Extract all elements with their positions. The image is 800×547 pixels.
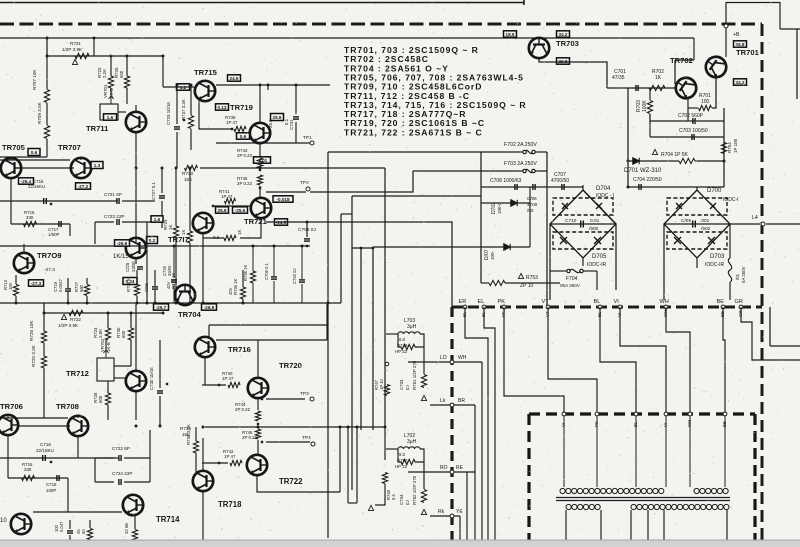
wire	[124, 457, 150, 459]
voltage callout 1.2	[177, 84, 190, 90]
junction	[295, 84, 298, 87]
resistor R751	[421, 375, 426, 388]
svg-text:F702 2A 250V: F702 2A 250V	[504, 142, 537, 148]
wire bridge left leg	[549, 224, 551, 300]
wire bridge top feed	[582, 185, 584, 190]
svg-text:C/05: C/05	[681, 218, 691, 224]
svg-text:F704: F704	[566, 276, 578, 282]
wire	[135, 133, 137, 236]
wire	[203, 237, 224, 239]
svg-text:330: 330	[24, 467, 32, 472]
wire	[384, 427, 386, 460]
wire secondary lead 3	[630, 510, 632, 547]
wire +B rail right	[524, 37, 694, 39]
wire main mid rail	[0, 302, 341, 304]
wire to L4	[730, 223, 760, 225]
resistor R704	[679, 158, 695, 163]
svg-text:C710: C710	[565, 218, 577, 224]
junction	[162, 55, 165, 58]
wire	[7, 436, 9, 478]
wire	[0, 200, 118, 202]
wire	[124, 481, 150, 483]
resistor R725	[124, 76, 129, 88]
wire	[134, 541, 136, 547]
junction	[189, 302, 192, 305]
junction	[327, 302, 330, 305]
voltage callout 25.6	[271, 114, 284, 121]
resistor R739	[234, 126, 246, 131]
node transformer BE	[723, 412, 727, 416]
wire	[693, 38, 695, 60]
svg-text:600: 600	[121, 330, 126, 338]
svg-text:10: 10	[0, 518, 7, 524]
svg-text:1.6: 1.6	[154, 217, 161, 222]
voltage callout 29.8	[557, 58, 570, 64]
wire top rail to preamp	[0, 2, 524, 4]
triangle mark	[421, 395, 426, 400]
svg-text:R735 1K: R735 1K	[171, 272, 176, 289]
diode D707	[504, 244, 510, 250]
svg-text:TR722: TR722	[279, 477, 303, 486]
wire	[122, 200, 155, 202]
node transformer VI	[562, 412, 566, 416]
svg-text:TR7O9: TR7O9	[37, 251, 61, 260]
svg-text:47/35: 47/35	[612, 75, 625, 81]
voltage callout 0.13	[216, 104, 229, 110]
capacitor C719	[65, 289, 71, 291]
wire	[242, 270, 244, 287]
wire bridge mid D700	[664, 223, 730, 225]
svg-text:34.2: 34.2	[736, 80, 745, 85]
wire	[69, 535, 71, 547]
wire pot to TR711	[118, 111, 126, 113]
svg-text:100-I: 100-I	[497, 204, 502, 214]
svg-text:1.3: 1.3	[94, 163, 101, 168]
wire	[134, 516, 136, 529]
svg-text:TR720: TR720	[279, 361, 302, 370]
svg-text:/502: /502	[701, 226, 711, 232]
svg-text:HP 22: HP 22	[395, 464, 408, 469]
svg-text:TR716: TR716	[228, 345, 251, 354]
svg-text:2P 0.22: 2P 0.22	[237, 181, 253, 186]
junction	[242, 302, 245, 305]
wire	[415, 334, 424, 347]
junction	[46, 55, 49, 58]
wire	[159, 340, 161, 388]
resistor R744	[255, 411, 260, 421]
wire transformer lead x666	[665, 416, 667, 487]
wire	[46, 139, 48, 157]
resistor R724	[105, 328, 110, 340]
node TP4	[311, 442, 315, 446]
wire TR701 emitter	[712, 78, 716, 108]
wire	[423, 462, 425, 472]
wire bus 5	[384, 168, 386, 358]
svg-text:-26.7: -26.7	[156, 305, 167, 310]
diode arrows D700	[676, 203, 716, 209]
wire	[195, 427, 197, 441]
svg-text:R733: R733	[182, 171, 193, 176]
svg-text:C721 6P: C721 6P	[104, 192, 122, 197]
wire	[149, 430, 151, 458]
junction	[306, 221, 309, 224]
wire TR721 emitter down	[240, 219, 261, 238]
svg-text:22/16KU: 22/16KU	[28, 184, 45, 189]
wire cap row	[481, 186, 583, 188]
svg-text:0.01: 0.01	[590, 218, 600, 224]
wire	[729, 224, 731, 258]
wire transformer lead x690	[689, 416, 691, 487]
svg-text:D701 WZ-310: D701 WZ-310	[624, 168, 662, 174]
svg-text:IODC - I: IODC - I	[596, 193, 614, 199]
capacitor C707	[562, 184, 564, 190]
wire	[107, 313, 109, 328]
wire	[347, 427, 349, 503]
svg-text:1K/15: 1K/15	[113, 254, 129, 260]
svg-text:/01: /01	[735, 273, 740, 280]
resistor R748	[382, 473, 387, 484]
svg-text:25.6: 25.6	[273, 115, 282, 120]
svg-text:600: 600	[98, 395, 103, 403]
svg-text:18.6: 18.6	[506, 32, 515, 37]
node PK	[502, 305, 506, 309]
svg-text:C727 0.1: C727 0.1	[151, 182, 156, 200]
wire	[386, 333, 398, 335]
svg-text:R753: R753	[526, 275, 538, 281]
voltage callout 34.2	[557, 31, 570, 37]
capacitor C728	[152, 287, 158, 289]
transformer core line 2	[556, 500, 730, 502]
wire	[43, 313, 45, 331]
svg-text:/500: /500	[589, 226, 599, 232]
voltage callout 25.8	[216, 207, 229, 213]
none	[0, 462, 203, 464]
wire TR720 collector	[257, 340, 259, 377]
capacitor C723	[117, 219, 119, 225]
resistor R727	[84, 285, 89, 296]
resistor R702	[649, 85, 665, 90]
fuse F703	[519, 169, 539, 172]
wire	[267, 85, 269, 90]
svg-text:1P 100: 1P 100	[733, 138, 738, 153]
wire	[423, 347, 425, 362]
wire	[95, 221, 114, 223]
resistor R720	[41, 356, 46, 368]
voltage callout 0.6	[237, 133, 250, 139]
svg-text:100: 100	[8, 282, 13, 290]
wire power bus left	[480, 152, 482, 283]
wire	[89, 520, 91, 528]
wire bus 4	[372, 248, 374, 430]
capacitor C716a	[44, 198, 47, 204]
transistor TR704	[175, 285, 195, 305]
wire secondary lead 5	[663, 510, 665, 547]
capacitor C706b	[271, 277, 277, 279]
wire TR718 collector	[202, 438, 204, 470]
wire to partition	[307, 222, 452, 307]
voltage callout -25.6	[233, 207, 248, 213]
wire	[107, 381, 109, 393]
wire left edge stub	[0, 156, 47, 158]
wire	[110, 56, 112, 76]
svg-text:TR718: TR718	[218, 500, 242, 509]
svg-text:TR702: TR702	[670, 56, 693, 65]
transistor TR721	[251, 198, 271, 218]
resistor R737	[188, 116, 193, 129]
capacitor C727	[159, 196, 165, 198]
svg-text:R752 1/2P 270: R752 1/2P 270	[412, 475, 417, 505]
junction	[146, 302, 149, 305]
svg-text:60: 60	[81, 529, 86, 534]
junction	[175, 167, 178, 170]
wire	[348, 502, 357, 504]
junction	[257, 426, 260, 429]
wire	[481, 282, 489, 284]
wire VI run	[620, 307, 666, 414]
wire	[190, 85, 192, 115]
wire bridge mid D704	[550, 223, 616, 225]
resistor R753	[489, 280, 505, 285]
wire	[162, 56, 164, 87]
resistor R1k	[224, 235, 236, 240]
svg-text:-27.2: -27.2	[78, 184, 89, 189]
svg-text:RO: RO	[440, 465, 448, 471]
capacitor C147	[67, 531, 73, 533]
wire bridge right leg	[615, 224, 617, 290]
wire	[415, 449, 424, 462]
junction	[356, 426, 359, 429]
wire BE run	[723, 307, 725, 414]
transistor TR717	[193, 213, 213, 233]
wire transformer lead x564	[563, 416, 565, 487]
junction	[259, 84, 262, 87]
junction	[212, 205, 214, 207]
svg-text:-26.9: -26.9	[117, 241, 128, 246]
wire YE drop	[459, 516, 461, 547]
wire	[175, 238, 177, 303]
wire	[273, 281, 275, 303]
wire	[67, 478, 69, 512]
capacitor C717	[59, 221, 61, 227]
node TP1	[310, 141, 314, 145]
svg-text:ER: ER	[459, 299, 467, 305]
node	[385, 362, 389, 366]
voltage callout 1.6	[104, 114, 117, 120]
wire bias row	[607, 87, 675, 89]
wire	[529, 187, 531, 247]
svg-text:TR721, 722 : 2SA671S B ~ C: TR721, 722 : 2SA671S B ~ C	[344, 127, 483, 137]
wire right bias chain	[723, 108, 725, 187]
wire EL run	[484, 307, 495, 547]
svg-text:RE: RE	[456, 465, 464, 471]
svg-text:2P 0.22: 2P 0.22	[242, 435, 258, 440]
svg-text:R722: R722	[70, 317, 81, 322]
junction	[273, 245, 276, 248]
wire	[161, 168, 163, 193]
svg-text:100-: 100-	[490, 250, 495, 260]
wire TR717 emitter drop	[202, 234, 204, 303]
wire power bus right	[546, 152, 548, 307]
svg-text:Lk: Lk	[440, 398, 446, 404]
wire	[257, 440, 259, 454]
transistor TR716	[195, 337, 215, 357]
wire	[69, 520, 71, 529]
svg-text:33/50: 33/50	[131, 260, 136, 272]
voltage callout -27.2	[76, 183, 91, 189]
wire	[77, 415, 79, 418]
resistor R738	[193, 441, 198, 453]
wire	[8, 477, 68, 479]
svg-text:TR703: TR703	[556, 39, 579, 48]
transistor TR714	[123, 495, 143, 515]
wire RO row	[408, 471, 475, 473]
svg-text:LO: LO	[440, 355, 447, 361]
svg-text:C723 22P: C723 22P	[104, 214, 124, 219]
wire WH drop	[481, 362, 483, 547]
triangle mark R704	[652, 149, 657, 154]
transistor TR701	[702, 53, 730, 81]
wire TR715 base	[163, 86, 194, 88]
resistor R716	[22, 475, 35, 480]
wire bundle to D707 row	[373, 246, 481, 248]
wire	[208, 325, 210, 337]
node WH	[664, 305, 668, 309]
triangle mark	[421, 509, 426, 514]
wire	[159, 396, 161, 426]
wire	[190, 129, 192, 150]
svg-text:1P 47: 1P 47	[224, 454, 236, 459]
wire	[189, 243, 191, 303]
transistor TR707	[71, 158, 91, 178]
wire	[582, 258, 584, 266]
wire	[202, 384, 226, 386]
capacitor C702	[693, 118, 695, 124]
wire diode row 2	[481, 246, 530, 248]
wire	[18, 425, 70, 427]
wire	[779, 2, 781, 29]
transistor TR720	[248, 378, 268, 398]
wire	[252, 246, 254, 271]
wire	[130, 313, 132, 328]
svg-text:3μH: 3μH	[407, 439, 417, 445]
svg-text:C/25: C/25	[125, 262, 130, 272]
svg-text:IODC-IR: IODC-IR	[587, 262, 607, 268]
resistor R713	[13, 285, 18, 296]
junction	[43, 312, 46, 315]
resistor R752	[421, 490, 426, 503]
svg-text:330: 330	[26, 215, 34, 220]
capacitor C730	[157, 391, 163, 393]
resistor R747	[384, 385, 389, 396]
svg-text:Rk: Rk	[438, 509, 445, 515]
wire base row TR705-707	[0, 159, 70, 161]
none	[202, 426, 385, 428]
junction	[259, 167, 262, 170]
wire	[95, 481, 114, 483]
fuse F704	[563, 269, 587, 272]
resistor R707	[44, 90, 49, 103]
svg-text:22/16KU: 22/16KU	[36, 448, 54, 453]
resistor R729	[173, 226, 178, 238]
wire TP2 bus drop	[327, 152, 329, 538]
svg-text:4700/50: 4700/50	[551, 178, 569, 184]
junction	[627, 186, 630, 189]
capacitor C729	[174, 127, 180, 129]
VR702 arrow	[104, 350, 109, 358]
wire	[154, 270, 156, 286]
wire	[505, 282, 560, 284]
junction plus	[50, 203, 52, 205]
wire	[126, 56, 128, 76]
wire	[43, 303, 45, 313]
node transformer VI	[664, 412, 668, 416]
transistor TR703	[529, 38, 549, 58]
svg-text:0.6: 0.6	[213, 235, 220, 240]
svg-text:15K: 15K	[184, 177, 193, 182]
dashed transformer enclosure	[529, 414, 755, 547]
wire TP2 row	[266, 191, 306, 193]
svg-text:TR719: TR719	[230, 103, 253, 112]
wire	[202, 462, 228, 464]
svg-text:R738 3.3K: R738 3.3K	[186, 424, 191, 445]
resistor R741	[225, 198, 236, 203]
resistor R743	[257, 158, 262, 168]
capacitor C718	[57, 475, 59, 481]
svg-text:BE: BE	[717, 299, 725, 305]
svg-text:C718: C718	[46, 482, 57, 487]
junction	[347, 426, 350, 429]
wire link to power	[352, 195, 481, 197]
wire	[0, 457, 118, 459]
potentiometer VR701	[100, 104, 118, 120]
svg-text:C708 1000/63: C708 1000/63	[490, 178, 522, 184]
wire	[650, 120, 724, 122]
capacitor C726	[171, 280, 177, 282]
svg-text:1/2P 3.9K: 1/2P 3.9K	[62, 47, 83, 52]
capacitor C708	[515, 184, 517, 190]
junction	[259, 169, 261, 171]
svg-text:R721: R721	[70, 41, 81, 46]
svg-text:C732 0J: C732 0J	[292, 268, 297, 284]
wire LO row	[408, 361, 482, 363]
wire BR drop	[474, 405, 476, 547]
wire bridge2 apex feed	[696, 187, 698, 190]
resistor R731	[134, 285, 139, 296]
wire +B rail	[0, 37, 524, 39]
wire bus 3b	[339, 427, 341, 492]
wire	[649, 114, 651, 125]
dashed box diode pair D704	[553, 198, 613, 215]
wire	[154, 290, 156, 303]
svg-text:0.0047: 0.0047	[58, 279, 63, 292]
node transformer WH	[688, 412, 692, 416]
capacitor C732	[299, 280, 305, 282]
wire	[67, 292, 69, 303]
junction	[126, 55, 129, 58]
svg-text:-27.3: -27.3	[31, 281, 42, 286]
dashed box diode pair D703	[667, 232, 727, 249]
svg-text:0.2: 0.2	[149, 238, 156, 243]
wire secondary right lead	[726, 510, 728, 541]
wire	[423, 472, 425, 489]
wire	[95, 457, 114, 459]
svg-text:C733: C733	[399, 379, 404, 390]
wire right box bottom	[770, 345, 800, 347]
wire	[43, 368, 45, 418]
junction plus	[166, 383, 168, 385]
svg-text:1K: 1K	[168, 225, 173, 230]
junction	[261, 441, 263, 443]
